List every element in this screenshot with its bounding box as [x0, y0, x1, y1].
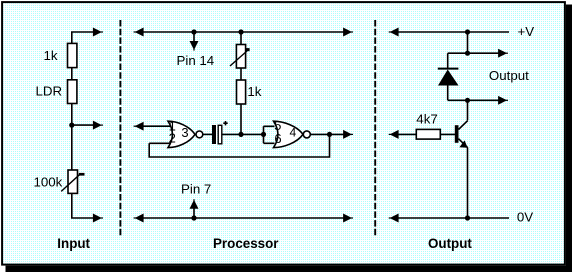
svg-text:+V: +V [518, 24, 535, 39]
wire processor bottom rail [143, 217, 344, 219]
node diode top [465, 51, 470, 56]
wire processor top rail [143, 31, 344, 33]
arrow input mid right [94, 122, 101, 129]
LDR [36, 80, 77, 104]
node pin14 on top rail [191, 29, 196, 34]
wire gate1 pin1 input [143, 125, 171, 127]
wire input top to arrow [72, 32, 94, 44]
svg-text:Input: Input [57, 236, 90, 251]
arrow input top right [94, 29, 101, 36]
wire 1k to LDR [71, 68, 73, 80]
svg-text:0V: 0V [517, 210, 533, 225]
NOR gate U1b [274, 118, 311, 148]
node pin7 on bottom rail [191, 215, 196, 220]
wire emitter to 0V rail [467, 148, 469, 218]
wire 100k to bottom arrow [72, 193, 94, 218]
wire diode top row [448, 52, 499, 54]
arrow pin 7 up [191, 201, 198, 208]
wire top rail to preset [240, 32, 242, 45]
arrow output top right [499, 50, 506, 57]
svg-text:100k: 100k [34, 174, 63, 189]
resistor 4k7 [416, 112, 440, 140]
svg-text:4k7: 4k7 [416, 112, 437, 127]
wire preset to 1k [240, 68, 242, 80]
svg-text:Pin 14: Pin 14 [177, 53, 215, 68]
section divider Processor/Output [374, 20, 376, 236]
section divider Input/Processor [119, 20, 121, 236]
wire diode branch [447, 53, 449, 100]
svg-text:3: 3 [181, 125, 188, 140]
wire pin 14 stub [193, 32, 195, 42]
diode D1 [438, 69, 459, 86]
svg-text:Pin 7: Pin 7 [181, 181, 211, 196]
arrow processor mid right [344, 131, 351, 138]
wire gate2 input tie bar [264, 126, 275, 143]
arrow 0V left [391, 215, 398, 222]
wire +V rail to diode node [467, 32, 469, 53]
wire capacitor to gate2 inputs [222, 133, 264, 135]
arrow pin 14 down [191, 42, 198, 49]
node LDR/100k [69, 123, 74, 128]
wire 1k to node [240, 104, 242, 134]
arrow output bottom right [499, 97, 506, 104]
svg-text:Processor: Processor [213, 236, 279, 251]
arrow +V left [391, 29, 398, 36]
wire +V rail [397, 31, 509, 33]
wire diode bottom row [448, 99, 499, 101]
wire node to transistor collector [467, 100, 469, 120]
svg-text:6: 6 [274, 131, 281, 146]
connection arrows [94, 29, 509, 222]
resistor 1k (input) [44, 43, 77, 67]
preset 100k [34, 170, 85, 193]
node diode bottom [465, 98, 470, 103]
svg-text:1k: 1k [247, 84, 261, 99]
node gate2 output/feedback [327, 132, 332, 137]
wire gate2 output to arrow [310, 133, 344, 135]
node preset on top rail [238, 29, 243, 34]
svg-text:Output: Output [489, 68, 529, 83]
wire gate1 output to capacitor [203, 133, 213, 135]
node gate2 inputs [261, 132, 266, 137]
wire node LDR/100k to arrow [72, 124, 94, 126]
arrow processor top right [344, 29, 351, 36]
svg-text:4: 4 [289, 125, 296, 139]
arrow processor top left [136, 29, 143, 36]
capacitor C1 (polarised) [212, 121, 228, 144]
arrow input bottom right [94, 215, 101, 222]
wire 0V rail [397, 217, 509, 219]
svg-text:LDR: LDR [36, 84, 63, 99]
arrow base row left [391, 131, 398, 138]
svg-text:Output: Output [428, 236, 472, 251]
wire base row [397, 133, 455, 135]
transistor Q1 [455, 121, 468, 148]
arrow processor bottom right [344, 215, 351, 222]
node cap/1k [238, 132, 243, 137]
svg-text:2: 2 [169, 131, 176, 146]
wire pin 7 stub [193, 208, 195, 218]
node +V rail [465, 29, 470, 34]
wire LDR to 100k [71, 104, 73, 171]
arrow processor bottom left [136, 215, 143, 222]
arrow gate1 input left [136, 123, 143, 130]
resistor 1k (processor) [237, 80, 262, 104]
NOR gate U1a [168, 118, 203, 147]
wire gate1 pin2 stub [149, 142, 170, 144]
wire feedback loop [149, 134, 329, 157]
svg-text:1k: 1k [44, 48, 58, 63]
node emitter/0V rail [465, 215, 470, 220]
preset (processor) [230, 45, 250, 69]
